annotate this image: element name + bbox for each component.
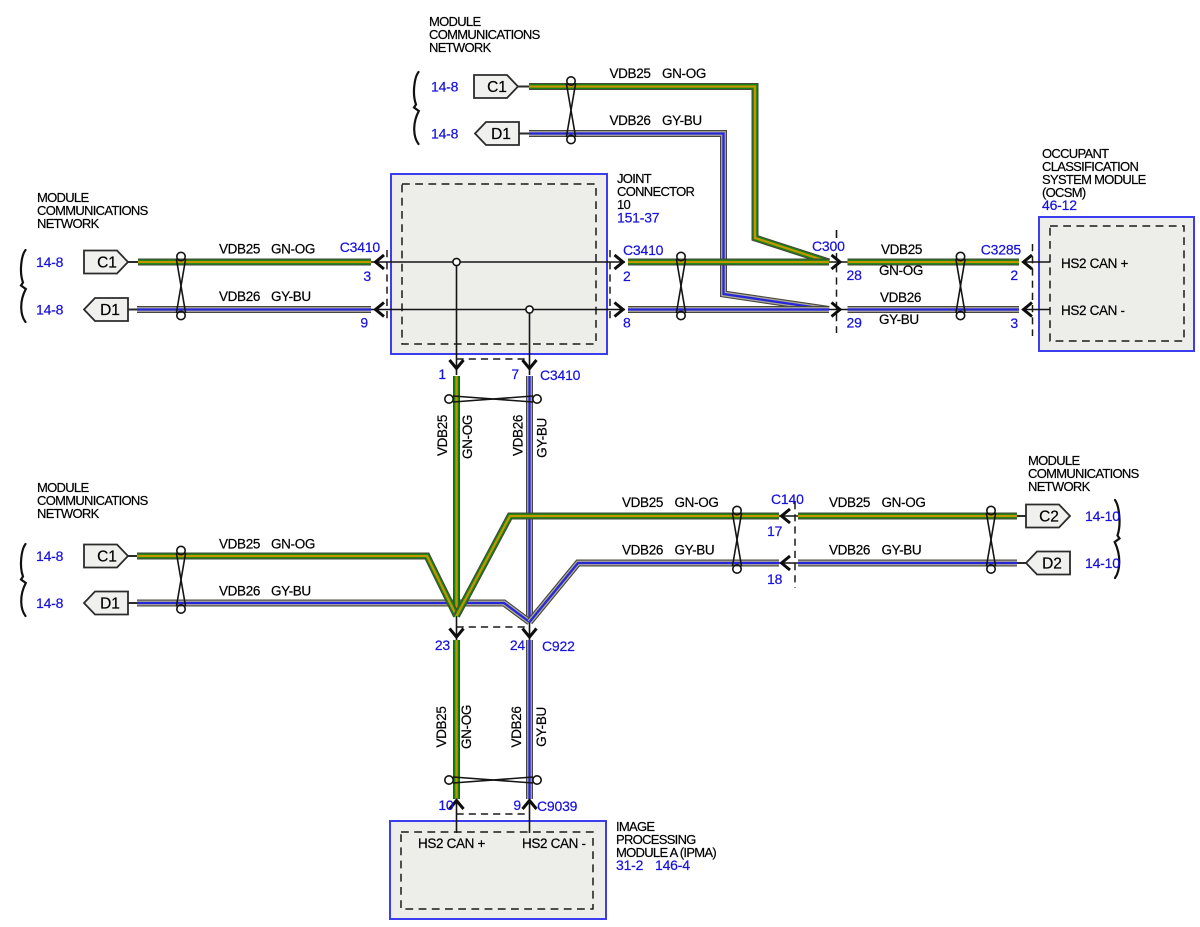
- svg-text:C2: C2: [1039, 509, 1059, 526]
- svg-text:14-8: 14-8: [36, 595, 64, 611]
- twisted-pair symbol between junction and C140: [732, 506, 741, 573]
- pin arrow C3410 pin 2: [615, 255, 624, 269]
- label VDB25 GN-OG (left row 2): [219, 537, 315, 552]
- svg-text:GN-OG: GN-OG: [675, 495, 719, 510]
- connector C9039 boundary: [457, 813, 530, 815]
- wire stub at C922 pin 24: [529, 622, 531, 640]
- svg-text:VDB26: VDB26: [829, 543, 870, 558]
- label module communications network (right): [1028, 453, 1140, 494]
- wire internal joint-connector bus row 1: [370, 261, 625, 263]
- harness brace left harness row 2: [21, 544, 26, 616]
- wire link left C1 row2: [128, 555, 137, 557]
- wire VDB25 GN-OG from top C1 to C300: [529, 87, 829, 263]
- wire IPMA internal HS2 CAN +: [456, 801, 458, 833]
- svg-text:VDB26: VDB26: [509, 706, 524, 747]
- svg-text:VDB25: VDB25: [881, 242, 922, 257]
- svg-text:GY-BU: GY-BU: [534, 707, 549, 747]
- svg-text:GN-OG: GN-OG: [271, 537, 315, 552]
- svg-text:VDB25: VDB25: [829, 495, 870, 510]
- wire IPMA internal HS2 CAN -: [529, 801, 531, 833]
- svg-text:VDB25: VDB25: [219, 242, 260, 257]
- pin arrow C922 pin 24: [523, 629, 537, 638]
- svg-text:GN-OG: GN-OG: [662, 66, 706, 81]
- svg-text:10: 10: [438, 797, 454, 813]
- svg-text:D1: D1: [100, 596, 120, 613]
- wire internal joint-connector drop pin 1: [456, 262, 458, 375]
- label VDB26 GY-BU (left row 1): [219, 289, 311, 304]
- label joint connector 10: [617, 171, 695, 212]
- svg-text:46-12: 46-12: [1042, 197, 1077, 213]
- svg-text:HS2 CAN +: HS2 CAN +: [1061, 256, 1128, 271]
- svg-text:GY-BU: GY-BU: [882, 543, 922, 558]
- connector C3410 boundary (left of joint connector): [386, 250, 388, 322]
- wire VDB25 GN-OG lower-left C1 to C922 pin 23: [137, 556, 457, 616]
- svg-text:VDB25: VDB25: [435, 415, 450, 456]
- wire internal joint-connector drop pin 7: [529, 310, 531, 376]
- svg-text:D1: D1: [100, 302, 120, 319]
- twisted-pair symbol between C300 and C3285: [956, 252, 965, 319]
- svg-text:VDB26: VDB26: [610, 113, 651, 128]
- svg-text:GY-BU: GY-BU: [535, 418, 550, 458]
- pin arrow C9039 pin 10: [450, 801, 464, 810]
- svg-text:8: 8: [623, 315, 631, 331]
- svg-text:24: 24: [510, 637, 526, 653]
- svg-text:146-4: 146-4: [655, 857, 690, 873]
- connector C3410 boundary (right of joint connector): [609, 250, 611, 322]
- svg-text:C1: C1: [97, 549, 117, 566]
- wire VDB26 GY-BU left D1 to joint connector pin 9: [137, 306, 371, 313]
- pin arrow C3410 pin 9: [376, 303, 385, 317]
- label VDB25 GN-OG (C140 to C2): [829, 495, 926, 510]
- connector tag D1 (left row 2): [84, 592, 128, 615]
- svg-text:14-10: 14-10: [1085, 508, 1120, 524]
- svg-text:GN-OG: GN-OG: [460, 415, 475, 459]
- svg-text:7: 7: [511, 366, 519, 382]
- wire VDB25 GN-OG C300 pin 28 to OCSM C3285 pin 2: [848, 259, 1020, 266]
- wire VDB25 GN-OG left C1 to joint connector pin 3: [138, 259, 371, 266]
- svg-text:C3285: C3285: [981, 242, 1022, 258]
- svg-text:NETWORK: NETWORK: [37, 506, 100, 521]
- node junction dot row 2: [526, 306, 533, 313]
- connector tag C1 (left row 2): [84, 545, 128, 568]
- label VDB26 GY-BU (C140 to D2): [829, 543, 921, 558]
- svg-text:9: 9: [360, 315, 368, 331]
- pin arrow C3410 pin 7: [523, 360, 537, 369]
- connector tag D2 (right): [1026, 552, 1070, 575]
- label VDB26 GY-BU (junction to C140): [622, 543, 714, 558]
- image processing module A (IPMA) box: [390, 821, 606, 919]
- svg-text:VDB26: VDB26: [219, 289, 260, 304]
- pin arrow C922 pin 23: [450, 629, 464, 638]
- grid ref 31-2 146-4: [616, 857, 690, 873]
- connector tag C1 (top): [474, 75, 518, 98]
- connector C922 boundary: [457, 626, 530, 628]
- wire VDB26 GY-BU joint connector pin 7 down to C922 pin 24: [526, 376, 533, 622]
- svg-text:14-8: 14-8: [36, 302, 64, 318]
- svg-text:14-8: 14-8: [36, 548, 64, 564]
- pin arrow C9039 pin 9: [523, 801, 537, 810]
- wire stub at C922 pin 23: [456, 616, 458, 640]
- svg-text:GY-BU: GY-BU: [271, 584, 311, 599]
- svg-text:VDB25: VDB25: [610, 66, 651, 81]
- wire link left D1 row2: [128, 602, 137, 604]
- svg-text:NETWORK: NETWORK: [429, 40, 492, 55]
- harness brace right harness: [1115, 500, 1120, 578]
- svg-text:C9039: C9039: [537, 798, 578, 814]
- svg-text:C3410: C3410: [540, 367, 581, 383]
- twisted-pair symbol between C140 and C2/D2: [986, 506, 995, 573]
- svg-text:23: 23: [435, 637, 451, 653]
- label module communications network (left row 2): [37, 480, 149, 521]
- svg-text:2: 2: [623, 268, 631, 284]
- svg-text:GY-BU: GY-BU: [879, 312, 919, 327]
- twisted-pair symbol left pair (row 2): [176, 546, 185, 613]
- svg-text:GY-BU: GY-BU: [271, 289, 311, 304]
- svg-text:3: 3: [1010, 315, 1018, 331]
- wire VDB25 GN-OG joint connector pin 2 to C300: [628, 259, 829, 266]
- label occupant classification system module: [1042, 146, 1147, 200]
- svg-text:14-8: 14-8: [431, 126, 459, 142]
- svg-text:C140: C140: [771, 491, 804, 507]
- wire link right C2: [1017, 515, 1026, 517]
- wire VDB26 GY-BU C300 pin 29 to OCSM C3285 pin 3: [848, 306, 1020, 313]
- label VDB26 / GY-BU (C300 to OCSM, stacked): [879, 290, 921, 327]
- label VDB25 GN-OG (junction to C140): [622, 495, 719, 510]
- wire stub at C140 pin 18: [779, 562, 798, 564]
- label image processing module A: [616, 819, 716, 860]
- svg-text:VDB26: VDB26: [219, 584, 260, 599]
- svg-text:GN-OG: GN-OG: [271, 242, 315, 257]
- svg-text:NETWORK: NETWORK: [37, 216, 100, 231]
- twisted-pair symbol between C3410 and C300: [676, 252, 685, 319]
- label VDB25 / GN-OG (C300 to OCSM, stacked): [879, 242, 923, 278]
- wire VDB26 GY-BU C140 to D2: [798, 560, 1017, 567]
- wire VDB25 GN-OG joint connector pin 1 down to C922 pin 23: [453, 376, 460, 616]
- wire internal joint-connector bus row 2: [370, 309, 625, 311]
- svg-text:14-8: 14-8: [431, 79, 459, 95]
- svg-text:VDB26: VDB26: [622, 543, 663, 558]
- svg-text:GY-BU: GY-BU: [675, 543, 715, 558]
- wire OCSM internal HS2 CAN -: [1023, 309, 1051, 311]
- wire VDB26 GY-BU C922 pin 24 down to C9039 pin 9: [526, 640, 533, 799]
- svg-text:NETWORK: NETWORK: [1028, 479, 1091, 494]
- wire stub at C140 pin 17: [779, 515, 798, 517]
- svg-text:17: 17: [767, 523, 783, 539]
- svg-text:C3410: C3410: [340, 239, 381, 255]
- pin arrow C3285 pin 2: [1024, 255, 1033, 269]
- label VDB25 GN-OG (top): [610, 66, 707, 81]
- svg-text:14-8: 14-8: [36, 254, 64, 270]
- svg-text:GY-BU: GY-BU: [662, 113, 702, 128]
- wire link top C1: [518, 86, 529, 88]
- svg-text:18: 18: [767, 571, 783, 587]
- pin arrow C3410 pin 3: [376, 255, 385, 269]
- label VDB25 GN-OG (left row 1): [219, 242, 315, 257]
- connector tag C2 (right): [1026, 505, 1070, 528]
- wire VDB25 GN-OG C140 to C2: [798, 513, 1017, 520]
- twisted-pair symbol below joint connector pins 1/7: [445, 395, 541, 403]
- wire VDB25 GN-OG C922 pin 23 down to C9039 pin 10: [453, 640, 460, 799]
- wire stub at C300 pin 28: [829, 261, 848, 263]
- svg-text:C3410: C3410: [623, 242, 664, 258]
- svg-text:HS2 CAN -: HS2 CAN -: [522, 836, 586, 851]
- wire VDB26 GY-BU joint connector pin 8 to C300: [628, 306, 829, 313]
- connector C3410 boundary (bottom of joint connector): [457, 358, 530, 360]
- pin arrow C300 pin 28: [832, 255, 841, 269]
- connector tag D1 (left row 1): [84, 298, 128, 321]
- svg-text:VDB25: VDB25: [219, 537, 260, 552]
- twisted-pair symbol left pair (row 1): [176, 252, 185, 319]
- twisted-pair symbol top pair: [566, 77, 575, 144]
- svg-text:14-10: 14-10: [1085, 555, 1120, 571]
- svg-text:VDB26: VDB26: [511, 415, 526, 456]
- wire VDB26 GY-BU from top D1 to C300: [529, 134, 829, 310]
- connector C3285 boundary: [1032, 244, 1034, 336]
- node junction dot row 1: [453, 258, 460, 265]
- wire VDB25 GN-OG C922 pin 23 to C140 pin 17: [457, 516, 780, 616]
- svg-text:VDB25: VDB25: [622, 495, 663, 510]
- wire VDB26 GY-BU lower-left D1 to C922 pin 24: [137, 603, 530, 622]
- connector tag D1 (top): [475, 122, 519, 145]
- svg-text:C1: C1: [97, 255, 117, 272]
- svg-text:D2: D2: [1042, 556, 1062, 573]
- svg-text:2: 2: [1010, 267, 1018, 283]
- pin arrow C3285 pin 3: [1024, 303, 1033, 317]
- label VDB26 GY-BU (top): [610, 113, 702, 128]
- svg-text:C922: C922: [542, 638, 575, 654]
- wire link right D2: [1017, 562, 1026, 564]
- label VDB26 GY-BU (left row 2): [219, 584, 311, 599]
- svg-text:GN-OG: GN-OG: [879, 263, 923, 278]
- svg-text:1: 1: [438, 366, 446, 382]
- occupant classification system module (OCSM) box: [1039, 217, 1194, 351]
- joint connector 10 box: [391, 174, 607, 354]
- label module communications network (top): [429, 14, 541, 55]
- connector tag C1 (left row 1): [84, 251, 128, 274]
- svg-text:HS2 CAN +: HS2 CAN +: [418, 836, 485, 851]
- connector C300 boundary: [836, 230, 838, 238]
- svg-text:9: 9: [513, 797, 521, 813]
- svg-text:31-2: 31-2: [616, 857, 644, 873]
- wire OCSM internal HS2 CAN +: [1023, 261, 1051, 263]
- pin arrow C140 pin 17: [782, 509, 791, 523]
- svg-text:GN-OG: GN-OG: [882, 495, 926, 510]
- svg-text:3: 3: [363, 268, 371, 284]
- twisted-pair symbol above C9039 pins 10/9: [445, 776, 541, 784]
- svg-text:VDB25: VDB25: [434, 706, 449, 747]
- pin arrow C140 pin 18: [782, 556, 791, 570]
- wire link left D1 row1: [128, 309, 137, 311]
- wire VDB26 GY-BU C922 pin 24 to C140 pin 18: [530, 563, 780, 622]
- svg-text:C1: C1: [487, 79, 507, 96]
- pin arrow C3410 pin 1: [450, 360, 464, 369]
- connector C140 boundary: [794, 502, 796, 588]
- svg-text:GN-OG: GN-OG: [459, 705, 474, 749]
- svg-text:C300: C300: [812, 238, 845, 254]
- wire stub at C300 pin 29: [829, 309, 848, 311]
- pin arrow C3410 pin 8: [615, 303, 624, 317]
- label module communications network (left row 1): [37, 190, 149, 231]
- svg-text:VDB26: VDB26: [880, 290, 921, 305]
- svg-text:151-37: 151-37: [617, 210, 660, 226]
- harness brace left harness row 1: [21, 250, 26, 322]
- wire link left C1 row1: [128, 261, 138, 263]
- wire link top D1: [519, 133, 529, 135]
- svg-text:29: 29: [847, 315, 863, 331]
- svg-text:D1: D1: [491, 126, 511, 143]
- svg-text:HS2 CAN -: HS2 CAN -: [1061, 303, 1125, 318]
- pin arrow C300 pin 29: [832, 303, 841, 317]
- svg-text:28: 28: [847, 267, 863, 283]
- harness brace top harness: [414, 72, 419, 144]
